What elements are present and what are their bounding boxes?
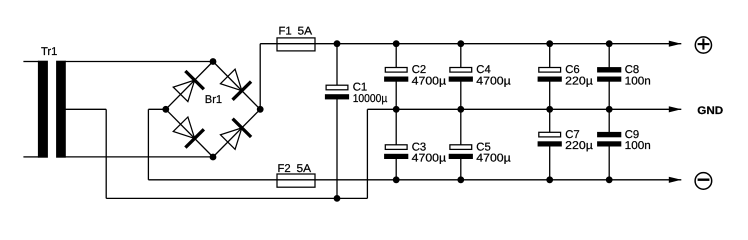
junction C2 at positive rail bbox=[393, 40, 400, 47]
wire bridge left vertex to F2 drop bbox=[148, 108, 165, 110]
bridge rectifier Br1 diamond frame bbox=[166, 62, 260, 158]
svg-text:C9: C9 bbox=[625, 129, 639, 141]
wire C5 top lead bbox=[460, 109, 462, 145]
capacitor C2 bbox=[384, 68, 408, 82]
bridge Br1 diode D-a (left to top) bbox=[173, 71, 204, 102]
svg-text:4700µ: 4700µ bbox=[476, 75, 511, 87]
wire bottom ground run bbox=[106, 197, 367, 199]
svg-text:C8: C8 bbox=[625, 64, 639, 76]
junction bridge top vertex AC1 bbox=[210, 58, 217, 65]
wire C7 top lead bbox=[549, 109, 551, 132]
wire C3 bottom lead bbox=[395, 158, 397, 180]
junction C6/C7 at GND rail bbox=[546, 106, 553, 113]
svg-text:GND: GND bbox=[697, 105, 723, 117]
output arrow negative bbox=[609, 177, 681, 183]
wire C4 bottom lead bbox=[460, 81, 462, 110]
wire C9 top lead bbox=[608, 109, 610, 132]
wire C4 top lead bbox=[460, 44, 462, 68]
wire C8 top lead bbox=[608, 44, 610, 68]
capacitor C7 bbox=[538, 132, 562, 146]
svg-text:10000µ: 10000µ bbox=[353, 93, 388, 105]
wire secondary bottom to bridge AC2 bbox=[65, 156, 213, 158]
svg-text:C2: C2 bbox=[412, 64, 426, 76]
svg-text:C3: C3 bbox=[412, 142, 426, 154]
positive terminal symbol bbox=[695, 37, 711, 53]
wire C1 top lead bbox=[336, 44, 338, 85]
wire GND rail bbox=[367, 108, 609, 110]
wire bridge right vertex riser to F1 bbox=[259, 44, 261, 110]
svg-text:220µ: 220µ bbox=[565, 140, 593, 152]
capacitor C1 bbox=[325, 85, 349, 99]
bridge Br1 diode D-b (top to right) bbox=[220, 69, 251, 100]
capacitor C3 bbox=[384, 145, 408, 159]
output arrow positive bbox=[609, 41, 681, 47]
junction C4 at positive rail bbox=[457, 40, 464, 47]
svg-text:Br1: Br1 bbox=[205, 94, 222, 106]
transformer Tr1 secondary winding bar bbox=[56, 61, 66, 158]
junction C1 at positive rail bbox=[334, 40, 341, 47]
svg-text:4700µ: 4700µ bbox=[412, 75, 447, 87]
junction C4/C5 at GND rail bbox=[457, 106, 464, 113]
wire C3 top lead bbox=[395, 109, 397, 145]
wire C6 top lead bbox=[549, 44, 551, 68]
wire C6 bottom lead bbox=[549, 81, 551, 110]
wire primary bottom pin bbox=[23, 156, 39, 158]
svg-text:4700µ: 4700µ bbox=[476, 153, 511, 165]
wire C7 bottom lead bbox=[549, 146, 551, 180]
wire secondary center tap horizontal bbox=[65, 108, 106, 110]
wire C8 bottom lead bbox=[608, 81, 610, 110]
negative terminal symbol bbox=[695, 173, 712, 190]
svg-text:C6: C6 bbox=[565, 64, 579, 76]
bridge Br1 diode D-c (left to bottom) bbox=[173, 117, 204, 148]
svg-text:5A: 5A bbox=[297, 163, 312, 175]
wire C5 bottom lead bbox=[460, 158, 462, 180]
bridge Br1 diode D-d (bottom to right) bbox=[220, 119, 251, 150]
wire secondary top to bridge AC1 bbox=[65, 61, 213, 63]
junction C8/C9 at GND rail bbox=[606, 106, 613, 113]
svg-text:4700µ: 4700µ bbox=[412, 153, 447, 165]
fuse F1 body bbox=[277, 38, 315, 51]
svg-text:C7: C7 bbox=[565, 129, 579, 141]
svg-text:5A: 5A bbox=[298, 25, 313, 37]
wire ground riser to GND rail bbox=[366, 109, 368, 198]
junction C9 at negative rail bbox=[606, 176, 613, 183]
capacitor C9 bbox=[597, 132, 621, 147]
wire C9 bottom lead bbox=[608, 146, 610, 180]
svg-text:Tr1: Tr1 bbox=[41, 46, 57, 58]
output arrow GND bbox=[609, 106, 681, 112]
wire primary top pin bbox=[23, 61, 39, 63]
svg-text:C5: C5 bbox=[476, 142, 490, 154]
junction C8 at positive rail bbox=[606, 40, 613, 47]
svg-text:F1: F1 bbox=[279, 25, 292, 37]
svg-text:100n: 100n bbox=[625, 75, 651, 87]
wire drop to negative rail bbox=[147, 109, 149, 180]
junction C6 at positive rail bbox=[546, 40, 553, 47]
junction bridge right vertex DC+ bbox=[257, 106, 264, 113]
junction C1 at bottom ground run bbox=[334, 195, 341, 202]
svg-text:C4: C4 bbox=[476, 64, 490, 76]
svg-text:C1: C1 bbox=[353, 81, 367, 93]
junction C3 at negative rail bbox=[393, 176, 400, 183]
junction C7 at negative rail bbox=[546, 176, 553, 183]
wire negative rail bbox=[148, 179, 609, 181]
wire positive rail bbox=[260, 43, 609, 45]
wire C2 bottom lead bbox=[395, 81, 397, 110]
fuse F2 body bbox=[277, 174, 315, 187]
wire center tap vertical drop bbox=[105, 109, 107, 198]
junction bridge left vertex DC- bbox=[162, 106, 169, 113]
svg-text:220µ: 220µ bbox=[565, 75, 593, 87]
junction C2/C3 at GND rail bbox=[393, 106, 400, 113]
svg-text:F2: F2 bbox=[278, 163, 291, 175]
capacitor C4 bbox=[449, 68, 473, 82]
wire C2 top lead bbox=[395, 44, 397, 68]
capacitor C6 bbox=[538, 68, 562, 82]
svg-text:100n: 100n bbox=[625, 140, 651, 152]
transformer Tr1 primary winding bar bbox=[38, 61, 48, 158]
wire C1 bottom lead crossing negative rail bbox=[336, 98, 338, 198]
junction bridge bottom vertex AC2 bbox=[210, 154, 217, 161]
junction C5 at negative rail bbox=[457, 176, 464, 183]
capacitor C5 bbox=[449, 145, 473, 159]
capacitor C8 bbox=[597, 67, 621, 82]
